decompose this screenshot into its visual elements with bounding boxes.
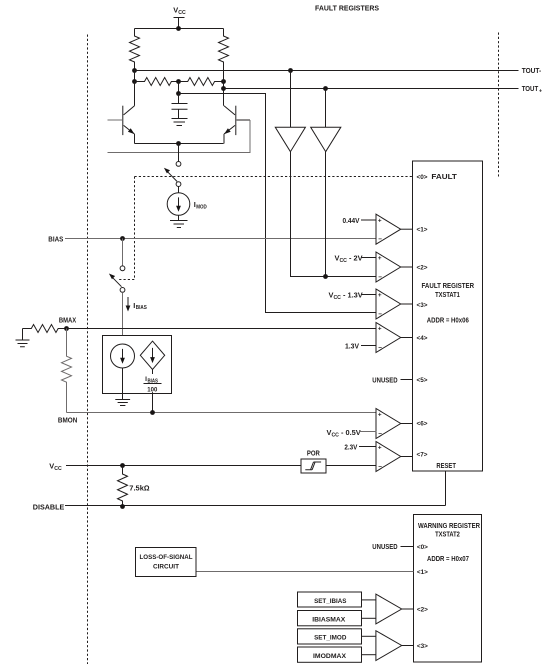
svg-text:−: − (378, 430, 382, 437)
wire POR to U6 (326, 465, 376, 467)
svg-text:FAULT REGISTERS: FAULT REGISTERS (315, 4, 379, 13)
svg-text:MOD: MOD (196, 204, 207, 210)
buffer A1 (290, 71, 292, 128)
svg-text:SET_IMOD: SET_IMOD (314, 635, 347, 642)
switch S1 top contact (176, 162, 181, 167)
svg-text:−: − (378, 274, 382, 281)
svg-text:−: − (378, 236, 382, 243)
current source I2 dependent (140, 341, 164, 369)
comparator U8 (376, 631, 402, 661)
box IMODMAX (298, 647, 362, 662)
svg-text:TOUT-: TOUT- (522, 66, 542, 75)
svg-text:WARNING REGISTER: WARNING REGISTER (418, 521, 481, 530)
box IBIASMAX (298, 611, 362, 626)
svg-text:<7>: <7> (417, 451, 428, 458)
box LOSS-OF-SIGNAL CIRCUIT (136, 548, 197, 577)
svg-text:TOUT: TOUT (522, 84, 539, 93)
wire I2 to BMON (152, 370, 154, 413)
svg-text:+: + (378, 326, 382, 333)
node DISABLE resistor junction (120, 504, 125, 509)
svg-text:<1>: <1> (417, 569, 428, 576)
wire RESET drop (445, 471, 447, 506)
node TOUT- buffer tap (288, 68, 293, 73)
wire top supply rail (135, 28, 224, 30)
buffer A2 (325, 89, 327, 128)
ground under IMOD (170, 215, 188, 227)
node VCC resistor tap (120, 463, 125, 468)
wire IMODMAX lead (362, 654, 376, 656)
svg-text:CIRCUIT: CIRCUIT (153, 564, 179, 571)
wire VCC-0.5V lead (359, 431, 376, 433)
wire right collector drop (223, 62, 225, 106)
capacitor C1 (172, 94, 188, 110)
node buffer join (323, 274, 328, 279)
annotation arrow IBIAS (127, 297, 129, 307)
svg-text:<1>: <1> (417, 227, 428, 234)
svg-text:−: − (378, 344, 382, 351)
transistor Q1 (108, 119, 123, 121)
box WARNING REGISTER TXSTAT2 (414, 515, 482, 663)
dashed chip boundary left (87, 35, 89, 665)
schmitt symbol (305, 462, 321, 470)
node center cap junction (176, 91, 181, 96)
dashed fault control net (135, 176, 413, 178)
svg-text:<0>: <0> (417, 174, 428, 181)
svg-text:1.3V: 1.3V (345, 342, 359, 351)
node TOUT+ buffer tap (323, 86, 328, 91)
wire TOUT+ line (224, 88, 519, 90)
svg-text:BMON: BMON (58, 416, 77, 425)
svg-text:+: + (378, 445, 382, 452)
node top rail junction (176, 26, 181, 31)
box current mirror (103, 336, 172, 394)
wire U8 output (402, 645, 414, 647)
comparator U5 (376, 409, 401, 439)
wire emitter rail (135, 143, 224, 145)
svg-text:FAULT REGISTER: FAULT REGISTER (422, 281, 475, 290)
power VCC symbol (174, 18, 185, 29)
svg-text:2.3V: 2.3V (344, 442, 357, 451)
svg-text:<2>: <2> (417, 606, 428, 613)
svg-text:0.44V: 0.44V (343, 216, 360, 225)
svg-text:UNUSED: UNUSED (372, 542, 398, 551)
resistor R2 right collector load (219, 29, 229, 71)
svg-text:<5>: <5> (417, 377, 428, 384)
transistor Q2 (237, 119, 251, 121)
svg-text:<6>: <6> (417, 420, 428, 427)
current source I1 (111, 344, 135, 368)
switch S1 bottom contact (176, 182, 181, 187)
wire BMAX line to comparator U4 (67, 328, 377, 330)
wire unused warning lead (401, 546, 414, 548)
svg-text:<4>: <4> (417, 335, 428, 342)
wire left collector drop (134, 71, 136, 82)
comparator U6 (376, 442, 401, 472)
wire BIAS line to comparator U1 (65, 238, 376, 240)
svg-text:DISABLE: DISABLE (33, 502, 65, 511)
svg-text:TXSTAT2: TXSTAT2 (435, 530, 460, 539)
wire U2 output (401, 266, 413, 268)
wire U3 output (401, 303, 413, 305)
svg-text:<3>: <3> (417, 643, 428, 650)
resistor R5 BMAX top (23, 325, 67, 333)
node left collector (132, 68, 137, 73)
wire TOUT- line (135, 70, 519, 72)
svg-text:BIAS: BIAS (136, 305, 147, 311)
svg-text:SET_IBIAS: SET_IBIAS (314, 598, 347, 605)
wire U4 output (401, 337, 413, 339)
svg-text:BMAX: BMAX (59, 316, 76, 325)
switch S1 blade (167, 171, 178, 182)
node BMAX junction (64, 326, 69, 331)
switch S2 blade (112, 277, 122, 287)
svg-text:+: + (378, 292, 382, 299)
switch S2 top contact (120, 266, 125, 271)
resistor R1 left collector load (130, 29, 140, 71)
resistor R7 7.5k (118, 466, 128, 507)
comparator U3 (376, 289, 401, 319)
svg-text:LOSS-OF-SIGNAL: LOSS-OF-SIGNAL (140, 554, 193, 561)
wire SET_IMOD lead (362, 635, 376, 637)
wire Q2 base feedback (108, 120, 251, 153)
svg-text:VCC - 2V: VCC - 2V (335, 254, 363, 265)
ground under C1 (172, 109, 188, 125)
svg-text:+: + (378, 255, 382, 262)
resistor R4 right emphasis (179, 78, 223, 86)
node BMON junction (150, 410, 155, 415)
wire VCC line to POR (66, 465, 302, 467)
svg-text:+: + (539, 89, 542, 95)
node BIAS switch tap (120, 236, 125, 241)
wire SET_IBIAS lead (362, 599, 376, 601)
wire U5 output (401, 423, 413, 425)
svg-text:TXSTAT1: TXSTAT1 (435, 290, 460, 299)
wire BMON line to comparator U5 (67, 412, 377, 414)
ground BMAX divider (16, 329, 30, 347)
wire IBIASMAX lead (362, 617, 376, 619)
box POR (301, 459, 326, 473)
wire U6 output (401, 456, 413, 458)
resistor R6 BMAX bottom (62, 329, 72, 413)
box FAULT REGISTER TXSTAT1 (413, 161, 483, 471)
switch S2 bottom contact (120, 288, 125, 293)
wire U1 output (401, 228, 413, 230)
svg-text:UNUSED: UNUSED (372, 375, 398, 384)
svg-text:<0>: <0> (417, 544, 428, 551)
wire 1.3V lead (361, 345, 376, 347)
svg-text:+: + (378, 412, 382, 419)
node TOUT+ tap (221, 86, 226, 91)
box SET_IMOD (298, 629, 362, 644)
svg-text:−: − (378, 311, 382, 318)
node left h-resistor end (132, 79, 137, 84)
svg-text:FAULT: FAULT (431, 172, 457, 181)
box SET_IBIAS (298, 592, 362, 607)
wire buffer outputs to comparator U2 (291, 152, 377, 277)
wire LOS to warning register (197, 571, 414, 573)
comparator U4 (376, 323, 401, 353)
comparator U1 (376, 214, 401, 244)
wire 0.44V lead (361, 219, 376, 221)
svg-text:IMODMAX: IMODMAX (313, 653, 347, 660)
svg-text:7.5kΩ: 7.5kΩ (129, 484, 150, 493)
wire VCC-2V lead (361, 257, 376, 259)
wire 2.3V lead (359, 446, 376, 448)
wire BIAS to switch S2 (122, 239, 124, 266)
wire DISABLE line (65, 505, 446, 507)
node center tap (176, 79, 181, 84)
svg-text:BIAS: BIAS (48, 235, 63, 244)
dashed chip boundary right (498, 33, 500, 177)
svg-text:+: + (378, 217, 382, 224)
svg-text:RESET: RESET (436, 461, 456, 470)
resistor R3 left emphasis (135, 78, 180, 86)
wire unused lead (401, 379, 413, 381)
svg-text:<2>: <2> (417, 264, 428, 271)
wire VCC-1.3V lead (361, 294, 376, 296)
comparator U2 (376, 252, 401, 282)
wire center tap to comparator U3 (179, 94, 377, 313)
svg-text:ADDR = H0x07: ADDR = H0x07 (427, 554, 469, 563)
node emitter junction (176, 141, 181, 146)
svg-text:POR: POR (307, 449, 321, 458)
wire S2 down through box (122, 292, 124, 344)
wire S1 to IMOD (178, 187, 180, 193)
wire center tap drop (178, 82, 180, 94)
svg-text:−: − (378, 463, 382, 470)
wire U7 output (402, 608, 414, 610)
svg-text:<3>: <3> (417, 302, 428, 309)
svg-text:IBIASMAX: IBIASMAX (312, 616, 346, 623)
comparator U7 (376, 594, 402, 624)
current source IMOD (167, 193, 190, 216)
svg-text:ADDR = H0x06: ADDR = H0x06 (427, 316, 469, 325)
node right h-resistor end (221, 79, 226, 84)
ground under I1 (115, 368, 130, 406)
wire tail drop (178, 144, 180, 162)
